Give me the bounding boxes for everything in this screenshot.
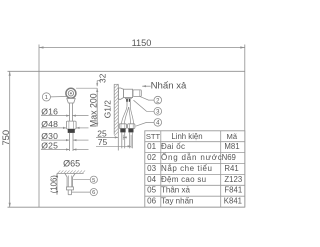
nut below ball joint: [67, 99, 75, 104]
svg-text:5: 5: [92, 178, 95, 184]
upper pipe Ø16: [69, 103, 71, 121]
coupling nut Ø48: [66, 121, 76, 129]
leader from circle 1: [51, 96, 67, 98]
ball joint outer circle: [66, 88, 76, 98]
valve body: [124, 89, 133, 97]
wall top edge: [114, 83, 118, 85]
svg-text:05: 05: [147, 186, 156, 195]
outlet connector: [125, 98, 131, 99]
callout circle 1: [42, 93, 50, 101]
Y branch left outer: [122, 106, 128, 124]
callout circle 4: [154, 119, 162, 127]
callout circle 5: [73, 179, 90, 181]
drain tail pipe: [67, 190, 69, 195]
dimension 1150 left arrow: [39, 46, 44, 48]
Y branch right outer: [130, 106, 133, 124]
dimension 32 line: [96, 81, 98, 87]
extension line pipe2 center: [130, 135, 132, 148]
drain funnel right side: [73, 173, 76, 187]
svg-text:03: 03: [147, 164, 156, 173]
drain nut: [67, 187, 74, 190]
svg-text:G1/2: G1/2: [103, 100, 113, 118]
svg-text:K841: K841: [224, 197, 242, 206]
ball joint center dot: [70, 92, 72, 94]
leader to circle 2: [139, 96, 154, 100]
push button: [133, 90, 141, 97]
Y branch right inner: [129, 107, 131, 124]
Y branch left inner: [124, 107, 128, 124]
svg-text:04: 04: [147, 175, 156, 184]
lower pipe Ø25: [68, 133, 70, 151]
Ø30 dimension line: [41, 139, 69, 141]
svg-text:32: 32: [98, 73, 108, 83]
svg-text:R41: R41: [224, 164, 238, 173]
parts table border: [145, 131, 245, 207]
frame top edge: [8, 70, 245, 72]
svg-text:Z123: Z123: [224, 175, 242, 184]
drain funnel left side: [65, 173, 67, 187]
svg-text:STT: STT: [146, 132, 161, 141]
parts table row dividers: [145, 141, 245, 143]
parts table column dividers: [160, 131, 162, 207]
Ø16 dimension line: [41, 115, 70, 117]
svg-text:Ø65: Ø65: [63, 158, 80, 168]
svg-text:6: 6: [92, 190, 95, 196]
label Nhấn xả arrow: [142, 85, 150, 87]
svg-text:1: 1: [45, 95, 48, 101]
leader to circle 4: [136, 122, 155, 126]
knurled dark ring: [68, 129, 75, 133]
valve flange: [119, 88, 124, 99]
svg-text:Nhấn xả: Nhấn xả: [151, 80, 187, 91]
svg-text:N69: N69: [222, 153, 236, 162]
leader to circle 3: [134, 100, 155, 111]
svg-text:75: 75: [98, 137, 108, 147]
svg-text:Linh kiện: Linh kiện: [171, 132, 202, 141]
outlet down pipe: [126, 102, 128, 106]
svg-text:02: 02: [147, 153, 156, 162]
svg-text:Ống dẫn nước: Ống dẫn nước: [161, 152, 223, 162]
dimension 750 line: [9, 71, 11, 207]
svg-text:1150: 1150: [132, 38, 152, 48]
Ø48 dimension line: [41, 127, 66, 129]
right hex nut: [128, 124, 135, 129]
dimension Max 200 line: [96, 88, 98, 126]
svg-text:Nắp che tiểu: Nắp che tiểu: [161, 164, 213, 173]
frame bottom edge: [8, 206, 245, 208]
svg-text:Thân xả: Thân xả: [161, 186, 190, 195]
right tail pipe: [129, 132, 131, 148]
extension line pipe1 center: [122, 135, 124, 140]
dimension (106) line: [56, 173, 58, 194]
svg-text:06: 06: [147, 197, 156, 206]
svg-text:Tay nhấn: Tay nhấn: [161, 197, 193, 206]
left hex nut: [119, 124, 126, 129]
svg-text:Max 200: Max 200: [89, 93, 99, 127]
svg-text:Đệm cao su: Đệm cao su: [161, 175, 206, 184]
svg-text:(106): (106): [49, 175, 58, 194]
dimension 25 line: [96, 136, 118, 138]
wall hatching: [114, 84, 118, 136]
callout circle 2: [154, 96, 162, 104]
dimension 1150 right arrow: [240, 46, 245, 48]
callout circle 6: [72, 191, 91, 193]
callout circle 3: [154, 108, 162, 116]
Ø25 dimension line: [41, 149, 69, 151]
wall face line: [117, 84, 119, 150]
svg-text:Ø25: Ø25: [41, 141, 58, 151]
dimension 1150 line: [39, 47, 245, 49]
svg-text:Ø48: Ø48: [41, 119, 58, 129]
dimension 750 top arrow: [9, 71, 11, 76]
svg-text:Mã: Mã: [227, 132, 238, 141]
left tail pipe: [121, 132, 123, 148]
svg-text:01: 01: [147, 142, 156, 151]
ball joint collar: [69, 98, 72, 99]
frame right edge: [244, 45, 246, 208]
reference line from ball to Max 200 dimension: [76, 87, 97, 89]
ball joint inner circle: [68, 91, 73, 96]
svg-text:750: 750: [0, 130, 11, 146]
dimension 750 bottom arrow: [9, 203, 11, 208]
drain inner pipe: [68, 176, 70, 187]
svg-text:M81: M81: [224, 142, 239, 151]
svg-text:Đai ốc: Đai ốc: [161, 142, 185, 151]
right knurled ring: [128, 129, 133, 133]
dimension 75 line: [96, 145, 131, 147]
wall back line: [113, 84, 115, 134]
floor line: [57, 172, 84, 174]
left knurled ring: [120, 129, 125, 133]
svg-text:F841: F841: [224, 186, 242, 195]
frame left edge: [38, 45, 40, 208]
floor hatching: [58, 170, 86, 173]
svg-text:Ø16: Ø16: [41, 107, 58, 117]
